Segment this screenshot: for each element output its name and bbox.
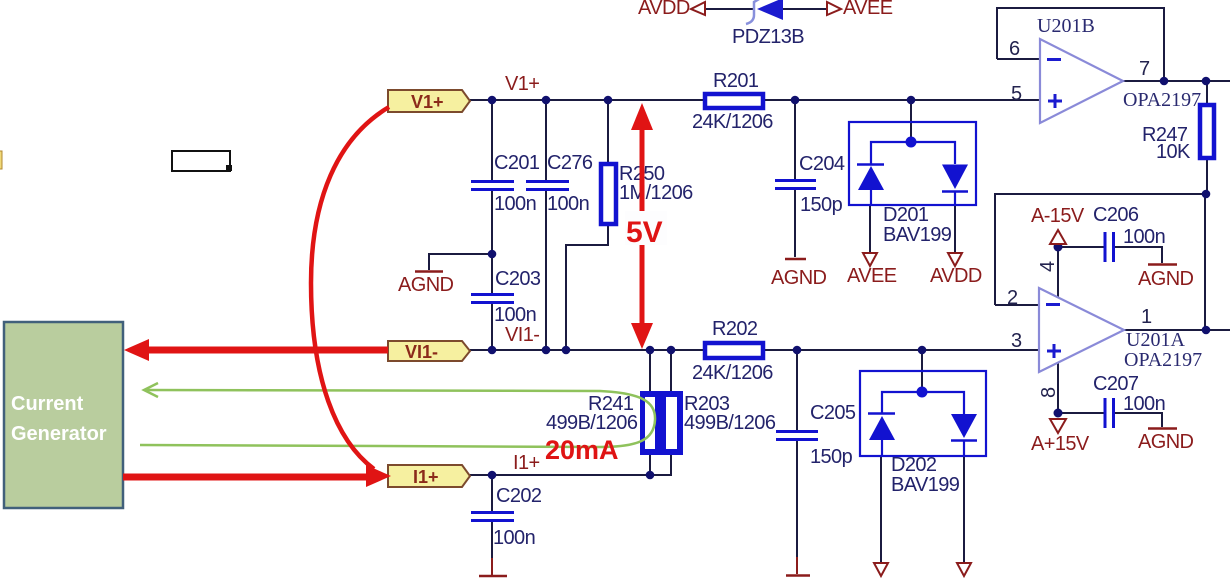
red thick arrow Current Generator to I1+ (123, 465, 391, 487)
svg-text:U201A: U201A (1126, 329, 1185, 351)
node V1+/R250 junction (604, 96, 613, 105)
wire C206 right to AGND (1115, 247, 1162, 263)
wire R203 bottom lead (670, 454, 672, 475)
ground AGND bar under C205 (786, 574, 810, 577)
node I1+/R241 junction (646, 471, 655, 480)
capacitor C205 (776, 432, 818, 440)
svg-text:D202: D202 (891, 454, 937, 476)
svg-text:150p: 150p (810, 446, 853, 468)
resistor R247 (1200, 105, 1214, 158)
wire D202 left pin down (880, 456, 882, 563)
svg-text:5V: 5V (626, 216, 663, 249)
wire C204 to AGND (794, 190, 796, 257)
power AVDD arrow top (691, 2, 705, 15)
svg-text:100n: 100n (1123, 226, 1165, 248)
wire C201 to AGND node (491, 191, 493, 293)
svg-text:24K/1206: 24K/1206 (692, 362, 773, 384)
svg-text:AVDD: AVDD (930, 265, 982, 287)
ground AGND bar for C206 (1148, 263, 1177, 266)
port tag I1+ (388, 465, 470, 487)
wire I1+ rail (470, 474, 672, 476)
capacitor C203 (471, 295, 514, 303)
wire U201B feedback loop (997, 8, 1164, 81)
svg-text:U201B: U201B (1037, 15, 1095, 37)
svg-text:3: 3 (1011, 330, 1022, 352)
node R201/D201 junction (907, 96, 916, 105)
svg-text:5: 5 (1011, 83, 1022, 105)
svg-text:I1+: I1+ (413, 467, 439, 487)
node V1+/C276 junction (542, 96, 551, 105)
wire D202 right pin down (963, 456, 965, 563)
power A+15V arrow (1050, 419, 1066, 433)
svg-text:AGND: AGND (398, 274, 454, 296)
svg-text:6: 6 (1009, 38, 1020, 60)
power arrow under D202 left (874, 563, 888, 576)
node R247/U201A feedback junction (1202, 190, 1211, 199)
node A+15V/pin8 junction (1054, 409, 1063, 418)
wire VI1- rail left of R202 (470, 349, 703, 351)
wire U201A pin4 (1057, 247, 1059, 298)
wire R250 bottom jog to VI1- rail (566, 226, 608, 350)
capacitor C204 (775, 181, 816, 189)
svg-text:AGND: AGND (1138, 431, 1194, 453)
port tag VI1- (388, 341, 470, 362)
node R202/D202 junction (918, 346, 927, 355)
svg-text:100n: 100n (547, 193, 589, 215)
node I1+/C202 junction (488, 471, 497, 480)
svg-text:C203: C203 (495, 268, 541, 290)
port tag V1+ (388, 90, 470, 112)
node VI1-/C203 junction (488, 346, 497, 355)
ground AGND bar under C202 (479, 575, 507, 578)
annotation empty box (172, 151, 232, 171)
capacitor C207 (1105, 398, 1114, 428)
svg-text:A-15V: A-15V (1031, 205, 1085, 227)
svg-text:BAV199: BAV199 (883, 224, 952, 246)
capacitor C201 (471, 182, 514, 190)
diode D201 BAV199 dual (849, 122, 976, 205)
wire A+15V node to C207 (1058, 412, 1104, 414)
wire C204 top lead (794, 100, 796, 179)
wire C205 to AGND (796, 441, 798, 559)
wire C202 to AGND (491, 522, 493, 560)
wire R203 top lead (670, 350, 672, 392)
red curve V1+ to I1+ (311, 107, 389, 469)
power AVDD arrow under D201 (948, 253, 962, 266)
wire R241 bottom lead (649, 454, 651, 475)
node VI1-/C276 junction (542, 346, 551, 355)
capacitor C276 (526, 182, 569, 190)
wire R241 top lead (649, 350, 651, 392)
svg-text:8: 8 (1038, 387, 1060, 398)
svg-text:C205: C205 (810, 402, 856, 424)
svg-text:VI1-: VI1- (405, 342, 438, 362)
resistor R241 (640, 391, 662, 455)
wire R250 top lead (607, 100, 609, 163)
wire zener left segment (705, 8, 753, 10)
power A-15V arrow (1050, 230, 1066, 244)
svg-text:C206: C206 (1093, 204, 1139, 226)
svg-text:100n: 100n (494, 193, 536, 215)
wire AGND tap horizontal (429, 254, 492, 270)
ground AGND bar near C203 (415, 270, 443, 273)
svg-text:R201: R201 (713, 70, 759, 92)
port tag sliver at left edge (0, 151, 2, 169)
node R201/C204 junction (791, 96, 800, 105)
wire D201 left pin to AVEE (869, 205, 871, 252)
zener diode PDZ13B (746, 0, 783, 24)
svg-text:I1+: I1+ (513, 452, 540, 474)
capacitor C202 (471, 513, 514, 521)
svg-text:AVEE: AVEE (847, 265, 897, 287)
svg-text:C204: C204 (799, 153, 845, 175)
green annotation loop with arrow (140, 383, 655, 447)
wire C203 to VI1- rail (491, 304, 493, 350)
svg-text:AGND: AGND (771, 267, 827, 289)
node C201/C203/AGND junction (488, 250, 497, 259)
wire C202 top lead (491, 475, 493, 511)
ground AGND bar under C204 (785, 258, 806, 261)
capacitor C206 (1105, 232, 1114, 262)
resistor R203 (662, 391, 683, 455)
svg-text:D201: D201 (883, 204, 929, 226)
wire C276 branch lower (545, 191, 547, 350)
svg-text:OPA2197: OPA2197 (1124, 349, 1202, 371)
svg-text:OPA2197: OPA2197 (1123, 89, 1201, 111)
wire D201 top pin (910, 100, 912, 139)
svg-text:Generator: Generator (11, 423, 107, 445)
wire U201A pin2 input (995, 304, 1039, 306)
diode D202 BAV199 dual (860, 371, 986, 456)
svg-text:R202: R202 (712, 318, 758, 340)
wire C205 AGND red stem (796, 557, 798, 574)
svg-text:20mA: 20mA (545, 435, 619, 465)
svg-text:BAV199: BAV199 (891, 474, 960, 496)
svg-text:2: 2 (1007, 287, 1018, 309)
svg-text:150p: 150p (800, 194, 843, 216)
wire U201A pin8 (1057, 362, 1059, 413)
wire R247 top lead (1206, 81, 1208, 104)
wire V1+ rail left of R201 (470, 99, 703, 101)
node VI1-/R203 junction (667, 346, 676, 355)
svg-text:1: 1 (1141, 306, 1152, 328)
wire C202 AGND red stem (491, 558, 493, 575)
power AVEE arrow under D201 (863, 253, 877, 266)
resistor R250 (601, 164, 616, 224)
svg-text:A+15V: A+15V (1031, 433, 1090, 455)
node VI1-/R250 junction (562, 346, 571, 355)
svg-text:Current: Current (11, 393, 84, 415)
wire C276 branch upper (545, 100, 547, 180)
wire U201A output (1124, 329, 1230, 331)
svg-text:V1+: V1+ (411, 92, 444, 112)
power arrow under D202 right (957, 563, 971, 576)
ground AGND bar for C207 (1148, 427, 1177, 430)
red 5V measurement arrow (625, 103, 667, 349)
svg-text:24K/1206: 24K/1206 (692, 111, 773, 133)
svg-text:499B/1206: 499B/1206 (684, 412, 776, 434)
svg-text:1M/1206: 1M/1206 (619, 182, 693, 204)
wire C205 top lead (796, 350, 798, 430)
resistor R201 (705, 94, 763, 108)
wire R247 bottom lead (1206, 159, 1208, 194)
svg-text:100n: 100n (1123, 393, 1165, 415)
wire D201 right pin to AVDD (954, 205, 956, 252)
svg-text:C202: C202 (496, 485, 542, 507)
node U201A output junction (1202, 326, 1211, 335)
wire zener right segment (783, 8, 827, 10)
red thick arrow VI1- to Current Generator (124, 339, 388, 361)
wire V1+ rail R201 to U201B pin5 (765, 99, 1040, 101)
svg-text:C276: C276 (547, 152, 593, 174)
wire U201A feedback loop (995, 194, 1205, 330)
svg-text:499B/1206: 499B/1206 (546, 412, 638, 434)
svg-text:7: 7 (1139, 58, 1150, 80)
svg-text:C201: C201 (494, 152, 540, 174)
resistor R202 (705, 343, 763, 358)
op-amp U201A (1039, 288, 1124, 372)
svg-text:4: 4 (1037, 261, 1059, 272)
svg-text:AVEE: AVEE (843, 0, 893, 19)
node U201B output/feedback junction (1160, 77, 1169, 86)
node A-15V/pin4 junction (1054, 243, 1063, 252)
node V1+/C201 junction (488, 96, 497, 105)
wire D202 top pin (921, 350, 923, 389)
svg-text:100n: 100n (493, 527, 535, 549)
node U201B output/R247 junction (1202, 77, 1211, 86)
node VI1-/R241 junction (646, 346, 655, 355)
wire U201B pin6 input (997, 58, 1040, 60)
svg-text:VI1-: VI1- (505, 324, 539, 346)
svg-text:100n: 100n (494, 304, 536, 326)
svg-text:V1+: V1+ (505, 73, 539, 95)
svg-text:AGND: AGND (1138, 268, 1194, 290)
wire A-15V node to C206 (1058, 246, 1104, 248)
wire C207 right to AGND (1115, 413, 1162, 427)
wire C201 branch upper (491, 100, 493, 180)
Current Generator block (4, 322, 123, 508)
op-amp U201B (1040, 39, 1123, 123)
svg-text:AVDD: AVDD (638, 0, 690, 19)
power AVEE arrow top (827, 2, 841, 15)
svg-text:C207: C207 (1093, 373, 1139, 395)
wire U201B output (1122, 80, 1230, 82)
svg-text:PDZ13B: PDZ13B (732, 26, 804, 48)
svg-text:10K: 10K (1156, 141, 1191, 163)
node R202/C205 junction (793, 346, 802, 355)
wire VI1- rail R202 to U201A pin3 (765, 349, 1039, 351)
